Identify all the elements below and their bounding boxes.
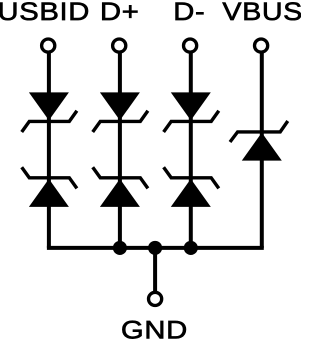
- zener diode D4 (VBUS): zener cathode bar: [230, 121, 288, 142]
- zener diode D4 (VBUS): triangle cathode-up: [242, 133, 282, 161]
- zener diode D1a top (USBID): triangle cathode-down: [29, 92, 69, 120]
- zener diode D2a top (D+): triangle cathode-down: [100, 92, 140, 120]
- zener diode D1a top (USBID): zener cathode bar: [22, 111, 77, 132]
- zener diode D1b bottom (USBID): triangle cathode-up: [29, 179, 69, 207]
- wire GND bus: [47, 246, 264, 250]
- junction dot GND stub / bus: [148, 241, 162, 255]
- label VBUS: [223, 2, 302, 20]
- zener diode D2a top (D+): zener cathode bar: [93, 111, 148, 132]
- zener diode D3b bottom (D-): triangle cathode-up: [171, 179, 211, 207]
- zener diode D3a top (D-): zener cathode bar: [164, 111, 219, 132]
- terminal circle D-: [184, 39, 197, 52]
- wire column VBUS: [260, 53, 264, 248]
- label D-: [176, 3, 204, 20]
- wire column USBID: [47, 53, 51, 248]
- junction dot D- / bus: [184, 241, 198, 255]
- terminal circle VBUS: [255, 39, 268, 52]
- zener diode D2b bottom (D+): zener cathode bar: [93, 167, 148, 188]
- label D+: [102, 3, 137, 20]
- wire column D+: [118, 53, 122, 248]
- terminal circle D+: [113, 39, 126, 52]
- zener diode D2b bottom (D+): triangle cathode-up: [100, 179, 140, 207]
- label USBID: [0, 2, 88, 20]
- zener diode D1b bottom (USBID): zener cathode bar: [22, 167, 77, 188]
- wire column D-: [189, 53, 193, 248]
- label GND: [122, 321, 185, 339]
- zener diode D3a top (D-): triangle cathode-down: [171, 92, 211, 120]
- zener diode D3b bottom (D-): zener cathode bar: [164, 167, 219, 188]
- wire GND stub: [153, 246, 157, 291]
- junction dot D+ / bus: [113, 241, 127, 255]
- terminal circle USBID: [42, 39, 55, 52]
- terminal circle GND: [149, 292, 162, 305]
